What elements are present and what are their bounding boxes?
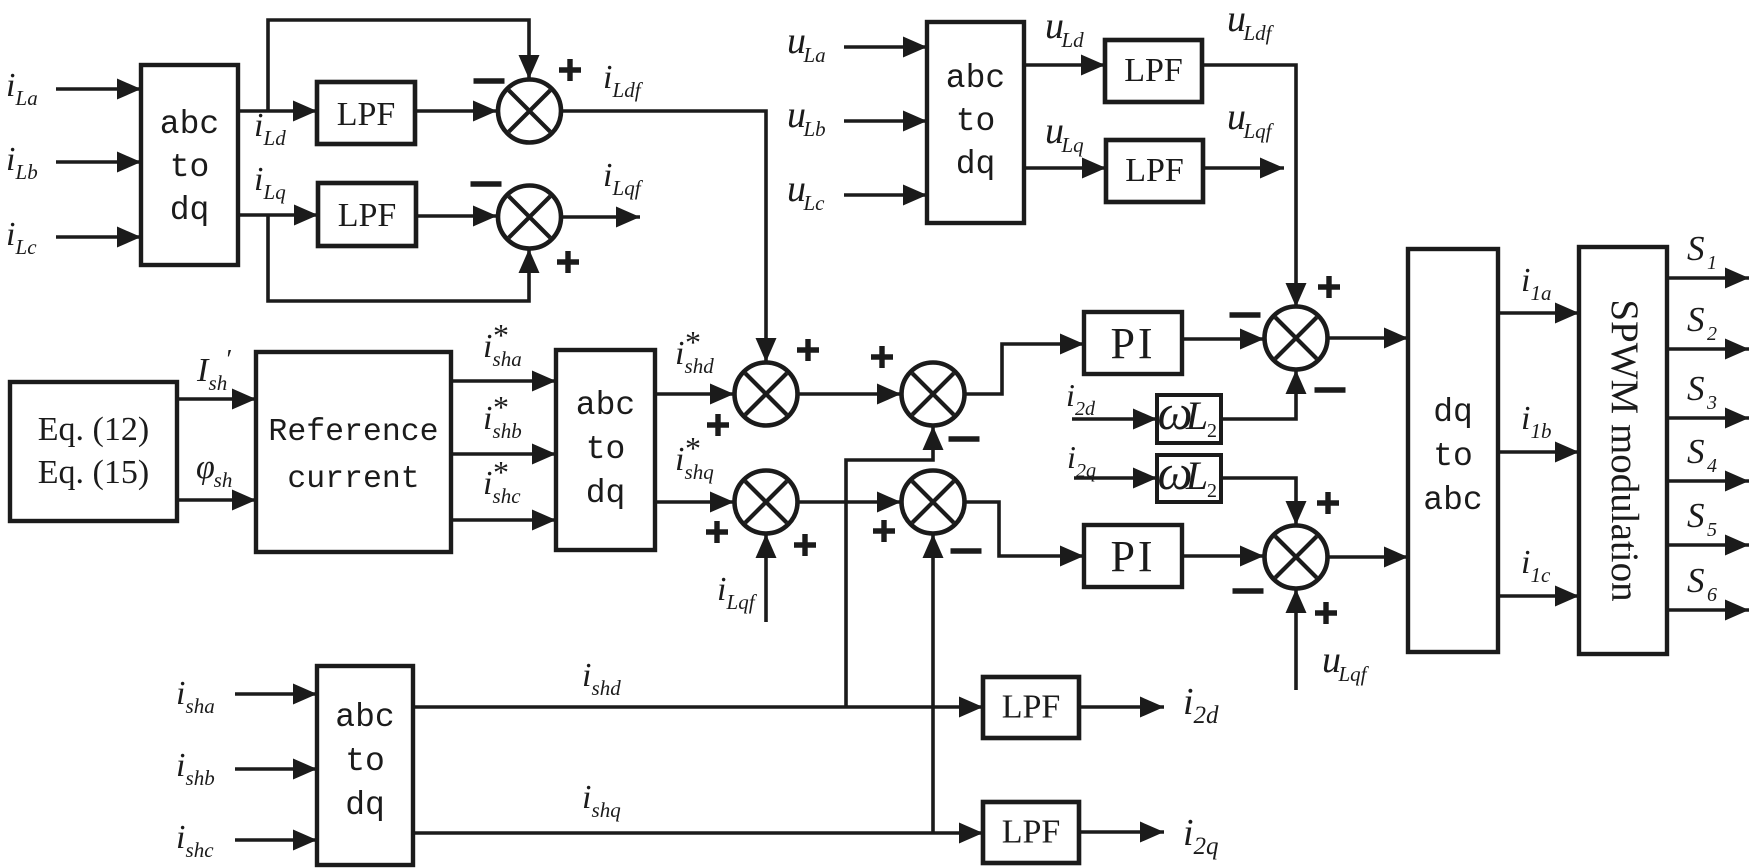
svg-text:sh: sh: [209, 371, 228, 395]
label i_shd: [582, 657, 621, 700]
svg-text:i: i: [176, 675, 185, 712]
svg-text:*: *: [685, 324, 701, 360]
svg-text:Lb: Lb: [15, 160, 38, 184]
svg-text:S: S: [1687, 496, 1705, 535]
wire sum8 to dq-abc: [1328, 547, 1408, 568]
svg-text:6: 6: [1707, 584, 1717, 606]
svg-text:S: S: [1687, 369, 1705, 408]
svg-text:1: 1: [1707, 252, 1717, 274]
plus sign sum5 bottom input: [794, 534, 816, 556]
svg-text:i: i: [675, 441, 684, 478]
svg-text:i: i: [1521, 544, 1530, 581]
svg-text:abc: abc: [946, 60, 1005, 97]
wire i_shq feedback to sum6 bottom: [923, 534, 944, 833]
wire i_2d arrow: [1072, 409, 1157, 430]
svg-text:i: i: [176, 819, 185, 856]
wire S_6 output arrow: [1667, 600, 1749, 621]
svg-text:current: current: [287, 462, 419, 497]
label i_2q (output): [1183, 812, 1219, 860]
label i*_shq: [675, 430, 714, 484]
wire i_Lq to LPF2: [238, 205, 318, 226]
svg-text:La: La: [15, 86, 38, 110]
svg-text:i: i: [483, 465, 492, 502]
svg-text:abc: abc: [576, 387, 635, 424]
svg-text:to: to: [956, 103, 996, 140]
label i_shb: [176, 747, 215, 790]
plus sign sum1 top input: [559, 59, 581, 81]
block PI (d-axis): [1084, 312, 1182, 374]
svg-text:i: i: [254, 107, 263, 144]
svg-text:2: 2: [1207, 420, 1217, 442]
svg-text:Lb: Lb: [803, 117, 826, 141]
minus sign sum7 bottom input: [1315, 387, 1346, 392]
label i*_shc: [483, 454, 521, 508]
wire i_2d output arrow: [1079, 697, 1164, 718]
wire omega-L2-d to sum7 bottom: [1221, 370, 1307, 419]
wire u_Lq to LPF4: [1024, 158, 1106, 179]
svg-text:dq: dq: [170, 192, 210, 229]
label i_shq: [582, 779, 621, 822]
label i_Ld: [254, 107, 286, 150]
svg-text:i: i: [6, 67, 15, 104]
svg-text:*: *: [493, 389, 509, 425]
svg-text:to: to: [170, 149, 210, 186]
label u_Lc: [787, 168, 825, 215]
svg-text:La: La: [803, 43, 826, 67]
svg-text:LPF: LPF: [1124, 52, 1183, 89]
wire u_Lb input arrow: [844, 111, 927, 132]
svg-text:*: *: [493, 454, 509, 490]
wire sum6 to PI (q): [965, 502, 1084, 567]
wire omega-L2-q to sum8 top: [1221, 478, 1307, 525]
block LPF (i_Lq): [318, 183, 416, 246]
wire i_shb input arrow: [235, 759, 317, 780]
label i_Lc: [6, 216, 37, 259]
wire i_Ld to LPF: [238, 101, 317, 122]
svg-text:sha: sha: [186, 694, 215, 718]
wire S_5 output arrow: [1667, 535, 1749, 556]
svg-text:to: to: [1433, 438, 1473, 475]
svg-text:′: ′: [227, 344, 233, 374]
wire i_2q output arrow: [1079, 822, 1164, 843]
wire u_Ldf to sum7 top: [1202, 65, 1307, 307]
wire sum4 to PI (d): [965, 334, 1084, 395]
block abc-to-dq (load current transform): [141, 65, 238, 265]
wire i_Lq direct feed to sum2 bottom: [268, 215, 540, 301]
svg-text:i: i: [1066, 377, 1075, 413]
svg-text:to: to: [586, 431, 626, 468]
svg-text:i: i: [675, 335, 684, 372]
wire i*_sha arrow: [451, 371, 556, 392]
label S_6: [1687, 561, 1717, 606]
svg-text:Ldf: Ldf: [612, 78, 644, 102]
svg-text:Eq. (12): Eq. (12): [38, 411, 149, 448]
label u_Ldf: [1227, 0, 1275, 45]
svg-text:to: to: [345, 743, 385, 780]
wire u_Lc input arrow: [844, 185, 927, 206]
svg-text:i: i: [6, 141, 15, 178]
plus sign sum6 left input: [873, 520, 895, 542]
wire i_Ld direct feed to sum1 top: [268, 20, 540, 111]
svg-text:i: i: [1521, 400, 1530, 437]
svg-text:Eq. (15): Eq. (15): [38, 454, 149, 491]
svg-text:abc: abc: [335, 699, 394, 736]
label S_2: [1687, 300, 1717, 345]
svg-text:2d: 2d: [1194, 702, 1220, 729]
wire sum7 to dq-abc: [1328, 328, 1408, 349]
svg-text:LPF: LPF: [1002, 689, 1061, 726]
wire u_La input arrow: [844, 37, 927, 58]
wire S_1 output arrow: [1667, 268, 1749, 289]
svg-text:Lqf: Lqf: [612, 176, 644, 200]
block abc-to-dq (shunt current transform): [317, 666, 413, 865]
svg-text:5: 5: [1707, 519, 1717, 541]
svg-text:PI: PI: [1110, 319, 1155, 368]
svg-text:Lc: Lc: [803, 191, 826, 215]
block SPWM modulation: [1579, 247, 1667, 654]
summing junction sum5 (q-axis): [735, 471, 798, 534]
wire u_Lqf input to sum8 bottom: [1286, 589, 1307, 690]
svg-text:S: S: [1687, 229, 1705, 268]
svg-text:Lqf: Lqf: [1338, 662, 1370, 686]
label i_sha: [176, 675, 215, 718]
block dq-to-abc: [1408, 249, 1498, 652]
wire I_sh' arrow: [177, 389, 256, 410]
svg-text:i: i: [582, 657, 591, 694]
wire i_shc input arrow: [235, 830, 317, 851]
label i_2d (output): [1183, 681, 1219, 729]
svg-text:i: i: [483, 400, 492, 437]
minus sign sum1 left input: [474, 78, 505, 83]
svg-text:i: i: [717, 571, 726, 608]
svg-text:LPF: LPF: [337, 96, 396, 133]
minus sign sum4 bottom input: [949, 436, 980, 441]
block LPF (i_shq): [983, 802, 1079, 863]
wire i_shq to LPF6: [413, 823, 983, 844]
label phi_sh: [196, 449, 232, 492]
label i*_sha: [483, 317, 522, 371]
plus sign sum8 top input: [1317, 492, 1339, 514]
label i_1a: [1521, 262, 1552, 305]
svg-text:i: i: [1521, 262, 1530, 299]
block Eq.(12)/Eq.(15): [10, 382, 177, 521]
svg-text:1a: 1a: [1531, 281, 1552, 305]
label i_shc: [176, 819, 214, 862]
svg-text:1c: 1c: [1531, 563, 1552, 587]
minus sign sum2 left input: [471, 181, 502, 186]
summing junction sum8 (q-axis output): [1265, 526, 1328, 589]
svg-text:abc: abc: [1423, 482, 1482, 519]
svg-text:i: i: [1183, 812, 1194, 854]
label u_Lq: [1045, 110, 1084, 157]
wire i_shd to LPF5: [413, 697, 983, 718]
label S_1: [1687, 229, 1717, 274]
svg-text:Ld: Ld: [263, 126, 287, 150]
svg-text:i: i: [483, 328, 492, 365]
label i_2d: [1066, 377, 1096, 420]
wire i*_shq arrow: [655, 492, 734, 513]
block LPF (i_Ld): [317, 82, 415, 144]
svg-text:shd: shd: [592, 676, 622, 700]
label u_Ld: [1045, 5, 1084, 52]
block LPF (u_Lq): [1106, 140, 1203, 202]
svg-text:L: L: [1185, 453, 1208, 498]
block abc-to-dq (reference transform): [556, 350, 655, 550]
label I_sh': [196, 344, 232, 395]
svg-text:shq: shq: [592, 798, 622, 822]
label u_Lb: [787, 94, 826, 141]
svg-text:S: S: [1687, 300, 1705, 339]
svg-text:dq: dq: [586, 475, 626, 512]
svg-text:dq: dq: [345, 787, 385, 824]
wire i_La input arrow: [56, 79, 141, 100]
wire i_shd feedback to sum4 bottom: [846, 426, 944, 707]
svg-text:shb: shb: [186, 766, 215, 790]
label i_2q: [1067, 439, 1096, 482]
wire sum5 to sum6: [798, 492, 901, 513]
summing junction sum6 (q-axis feedback): [902, 471, 965, 534]
wire i_1a arrow: [1498, 303, 1579, 324]
svg-text:3: 3: [1706, 392, 1717, 414]
wire i_Lc input arrow: [56, 227, 141, 248]
plus sign sum4 left input: [871, 346, 893, 368]
svg-text:Lq: Lq: [1061, 133, 1085, 157]
svg-text:PI: PI: [1110, 532, 1155, 581]
wire LPF1 to sum1: [415, 101, 497, 122]
svg-text:Ld: Ld: [1061, 28, 1085, 52]
svg-text:1b: 1b: [1531, 419, 1552, 443]
label i_Lb: [6, 141, 38, 184]
plus sign sum3 left input: [707, 414, 729, 436]
svg-text:Reference: Reference: [268, 415, 438, 450]
label i_Lq: [254, 161, 286, 204]
svg-text:Ldf: Ldf: [1243, 21, 1275, 45]
plus sign sum5 left input: [706, 521, 728, 543]
svg-text:dq: dq: [1433, 394, 1473, 431]
svg-text:Lqf: Lqf: [1243, 119, 1275, 143]
svg-text:S: S: [1687, 561, 1705, 600]
wire i_Lqf output arrow: [562, 207, 641, 228]
wire i_Ldf to sum3 top: [562, 111, 777, 362]
svg-text:φ: φ: [196, 449, 215, 486]
svg-text:i: i: [1183, 681, 1194, 723]
svg-text:dq: dq: [956, 146, 996, 183]
svg-text:i: i: [254, 161, 263, 198]
plus sign sum2 bottom input: [557, 251, 579, 273]
svg-text:Lc: Lc: [15, 235, 38, 259]
wire S_4 output arrow: [1667, 471, 1749, 492]
summing junction sum1 (i_Ldf): [498, 80, 561, 143]
wire i_sha input arrow: [235, 684, 317, 705]
wire i*_shc arrow: [451, 510, 556, 531]
svg-text:i: i: [582, 779, 591, 816]
svg-text:*: *: [493, 317, 509, 353]
svg-text:i: i: [1067, 439, 1076, 475]
svg-text:2: 2: [1707, 323, 1717, 345]
label S_4: [1687, 432, 1717, 477]
wire i_Lb input arrow: [56, 152, 141, 173]
label u_Lqf (q-axis input): [1322, 639, 1370, 686]
label i*_shd: [675, 324, 714, 378]
wire phi_sh arrow: [177, 490, 256, 511]
block omega-L2 (q): [1157, 444, 1221, 502]
svg-text:shc: shc: [186, 838, 215, 862]
wire u_Lqf output arrow: [1203, 158, 1284, 179]
label S_3: [1687, 369, 1717, 414]
summing junction sum7 (d-axis output): [1265, 307, 1328, 370]
summing junction sum4 (d-axis feedback): [902, 363, 965, 426]
svg-text:LPF: LPF: [338, 197, 397, 234]
minus sign sum7 left input: [1230, 312, 1261, 317]
wire S_2 output arrow: [1667, 339, 1749, 360]
wire PI1 to sum7: [1182, 329, 1264, 350]
block abc-to-dq (load voltage transform): [927, 22, 1024, 223]
svg-text:Lq: Lq: [263, 180, 287, 204]
block omega-L2 (d): [1157, 384, 1221, 443]
svg-text:i: i: [603, 59, 612, 96]
minus sign sum6 bottom input: [951, 548, 982, 553]
svg-text:2d: 2d: [1075, 398, 1096, 420]
svg-text:*: *: [685, 430, 701, 466]
block LPF (i_shd): [983, 677, 1079, 738]
block LPF (u_Ld): [1105, 40, 1202, 102]
label i_Ldf: [603, 59, 644, 102]
wire i_1b arrow: [1498, 442, 1579, 463]
label S_5: [1687, 496, 1717, 541]
svg-text:2q: 2q: [1194, 833, 1219, 860]
svg-text:sh: sh: [214, 468, 233, 492]
wire u_Ld to LPF3: [1024, 55, 1105, 76]
svg-text:i: i: [6, 216, 15, 253]
svg-text:2: 2: [1207, 480, 1217, 502]
label u_Lqf: [1227, 96, 1275, 143]
label i_1c: [1521, 544, 1551, 587]
wire i_2q arrow: [1074, 468, 1157, 489]
wire i*_shb arrow: [451, 444, 556, 465]
svg-text:Lqf: Lqf: [726, 590, 758, 614]
label u_La: [787, 20, 826, 67]
svg-text:LPF: LPF: [1002, 814, 1061, 851]
minus sign sum8 left input: [1233, 588, 1264, 593]
label i_Lqf: [603, 157, 644, 200]
wire i_Lqf input to sum5 bottom: [756, 534, 777, 622]
wire PI2 to sum8: [1182, 546, 1264, 567]
svg-text:4: 4: [1707, 455, 1717, 477]
wire sum3 to sum4: [798, 384, 901, 405]
plus sign sum8 bottom input: [1315, 602, 1337, 624]
label i_La: [6, 67, 38, 110]
plus sign sum3 top input: [797, 339, 819, 361]
svg-text:SPWM modulation: SPWM modulation: [1603, 299, 1646, 601]
summing junction sum3 (d-axis): [735, 363, 798, 426]
label i*_shb: [483, 389, 522, 443]
wire S_3 output arrow: [1667, 408, 1749, 429]
label i_1b: [1521, 400, 1552, 443]
svg-text:abc: abc: [160, 106, 219, 143]
svg-text:i: i: [603, 157, 612, 194]
svg-text:i: i: [176, 747, 185, 784]
label i_Lqf (q-axis input): [717, 571, 758, 614]
svg-text:L: L: [1185, 393, 1208, 438]
summing junction sum2 (i_Lqf): [498, 186, 561, 249]
block PI (q-axis): [1084, 525, 1182, 587]
svg-text:LPF: LPF: [1125, 152, 1184, 189]
wire LPF2 to sum2: [416, 206, 497, 227]
wire i_1c arrow: [1498, 586, 1579, 607]
svg-text:S: S: [1687, 432, 1705, 471]
wire i*_shd arrow: [655, 384, 734, 405]
block Reference current: [256, 352, 451, 552]
plus sign sum7 top input: [1318, 276, 1340, 298]
